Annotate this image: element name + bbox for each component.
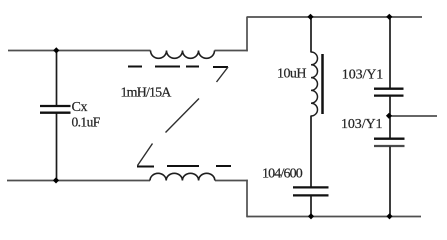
inductor L2 10uH vertical coil bbox=[311, 52, 318, 116]
inductor top winding of choke (1mH/15A) bbox=[151, 51, 215, 59]
node junction dot top rail at 10uH bbox=[307, 14, 313, 20]
wire Y-cap branch from top rail bbox=[389, 17, 391, 88]
svg-text:10uH: 10uH bbox=[277, 67, 306, 82]
core dashed line top bbox=[128, 66, 228, 69]
node junction dot between Y caps bbox=[386, 113, 392, 119]
wire after top winding to riser bbox=[215, 50, 248, 52]
wire mid-right stub from Y-cap midpoint bbox=[389, 115, 437, 117]
core dashed line bottom bbox=[137, 165, 231, 168]
wire 10uH branch to C2 bbox=[310, 116, 312, 187]
wire vertical drop at x=247 bbox=[246, 180, 248, 218]
wire lower Y cap to bottom rail bbox=[389, 147, 391, 218]
wire C2 to bottom rail bbox=[310, 196, 312, 217]
wire bottom-left rail bbox=[7, 180, 150, 182]
wire after bottom winding to drop bbox=[215, 180, 248, 182]
svg-text:103/Y1: 103/Y1 bbox=[341, 117, 383, 132]
core bar of 10uH bbox=[321, 54, 324, 114]
node junction dot bottom rail at C2 bbox=[308, 213, 314, 219]
svg-text:103/Y1: 103/Y1 bbox=[342, 67, 384, 82]
svg-text:104/600: 104/600 bbox=[262, 167, 303, 182]
capacitor C3 103/Y1 upper plates bbox=[374, 88, 404, 90]
arrow shaft segment bottom bbox=[138, 144, 153, 166]
wire Cx branch upper bbox=[56, 50, 58, 106]
svg-text:1mH/15A: 1mH/15A bbox=[121, 86, 173, 101]
wire 10uH branch upper bbox=[310, 17, 312, 53]
capacitor C4 103/Y1 lower plates bbox=[374, 138, 405, 140]
capacitor C2 104/600 plates bbox=[293, 186, 329, 188]
capacitor Cx plates bbox=[40, 105, 71, 107]
svg-text:0.1uF: 0.1uF bbox=[72, 115, 101, 130]
svg-text:Cx: Cx bbox=[72, 100, 88, 115]
node junction dot top-left bbox=[53, 47, 59, 53]
wire top-left rail L1 bbox=[8, 50, 151, 52]
wire vertical riser at x=247 bbox=[246, 17, 248, 52]
node junction dot bottom-left bbox=[53, 177, 59, 183]
wire between Y caps bbox=[389, 96, 391, 138]
arrow shaft segment middle bbox=[166, 99, 200, 133]
wire top rail bbox=[247, 16, 422, 18]
node junction dot bottom rail at Y-caps bbox=[386, 213, 392, 219]
node junction dot top rail at Y-caps bbox=[386, 14, 392, 20]
wire bottom rail bbox=[247, 216, 421, 218]
wire Cx branch lower bbox=[56, 113, 58, 181]
inductor bottom winding of choke bbox=[150, 173, 215, 180]
arrow shaft segment top with head bbox=[217, 67, 229, 82]
